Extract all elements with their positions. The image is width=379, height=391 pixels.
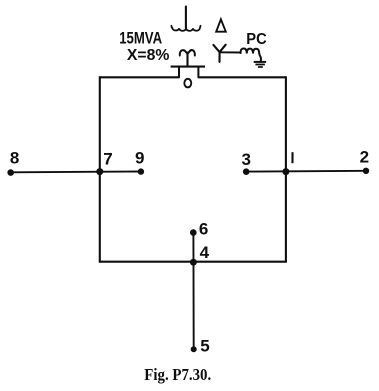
node 0 label [184, 79, 191, 88]
transformer T1 core stem [186, 53, 188, 67]
node 8 dot [7, 169, 14, 176]
transformer left drop to bus [178, 67, 180, 78]
node 6 dot [190, 229, 197, 236]
svg-text:2: 2 [360, 148, 369, 167]
svg-text:4: 4 [200, 243, 210, 262]
svg-text:3: 3 [241, 150, 250, 169]
wire: right stub (node 3 to node 2) [246, 170, 366, 173]
ground symbol [254, 62, 266, 67]
node 3 dot [243, 168, 250, 175]
node 4 junction dot [190, 259, 197, 266]
wire: bottom bus [99, 261, 287, 263]
wire: left stub (node 8 to node 9) [11, 171, 141, 174]
svg-text:9: 9 [135, 149, 144, 168]
wire: right side of loop [285, 76, 287, 261]
transformer T1 secondary bar [171, 66, 205, 68]
delta connection symbol [216, 19, 226, 31]
node 1 junction dot [282, 168, 289, 175]
wire: bottom stub (node 6 to node 5) [192, 233, 194, 350]
wye neutral symbol (Y) [213, 45, 225, 62]
wire: top bus left segment [100, 76, 179, 78]
wye winding symbol (grounded-wye connection mark above transformer) [171, 7, 200, 31]
svg-text:5: 5 [200, 337, 209, 356]
node 9 dot [138, 168, 144, 174]
svg-text:X=8%: X=8% [127, 47, 170, 64]
node 7 junction dot [96, 168, 103, 175]
svg-text:PC: PC [246, 31, 266, 48]
node 5 dot [191, 346, 197, 352]
svg-text:6: 6 [199, 220, 208, 239]
node 2 dot [363, 168, 369, 174]
node 1 label (plain bar) [291, 152, 293, 163]
svg-text:8: 8 [10, 149, 19, 168]
svg-text:15MVA: 15MVA [119, 30, 162, 48]
wire: top bus right segment [198, 76, 286, 78]
wire: left side of loop [99, 76, 101, 261]
Petersen coil (inductor) [241, 49, 261, 61]
svg-text:Fig. P7.30.: Fig. P7.30. [144, 365, 211, 384]
transformer right drop to bus [197, 67, 199, 78]
svg-text:7: 7 [103, 149, 112, 168]
transformer T1 top winding (curled-T) [180, 50, 195, 55]
wire from wye neutral to Petersen coil [220, 51, 241, 53]
